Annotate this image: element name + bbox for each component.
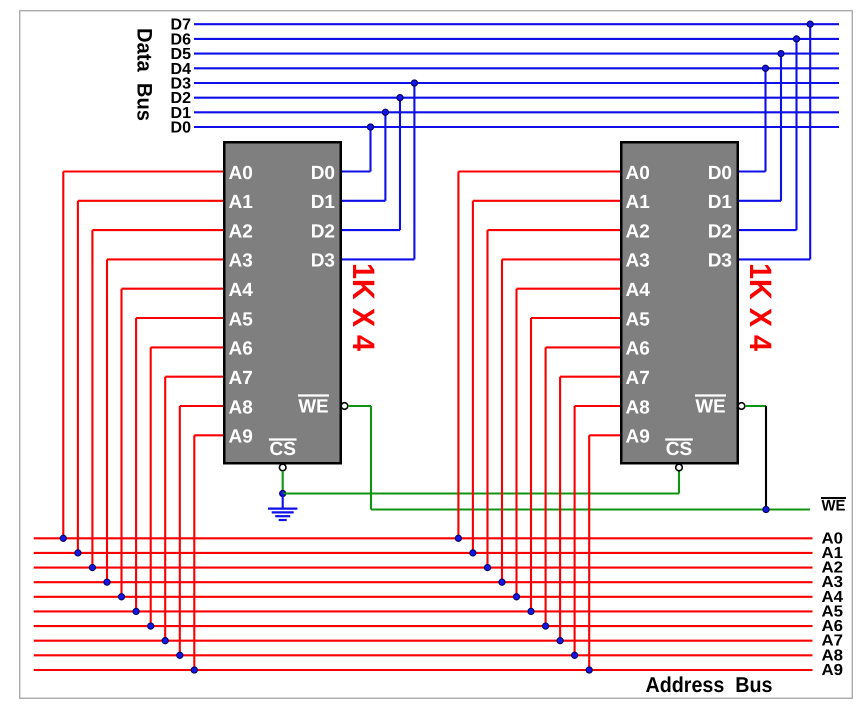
svg-text:A7: A7: [626, 368, 650, 389]
wire U1 A2 riser: [91, 230, 93, 567]
junction U1 A7 on address bus: [162, 638, 168, 644]
wire U1 pin A8 stub: [180, 405, 223, 407]
wire address bus line A3: [34, 581, 813, 583]
wire address bus line A8: [34, 654, 813, 656]
junction U2 A7 on address bus: [557, 638, 563, 644]
wire WE net horizontal: [371, 508, 810, 510]
wire data bus line D4: [194, 67, 839, 69]
svg-text:A3: A3: [626, 251, 650, 272]
junction U2 A2 on address bus: [484, 565, 490, 571]
wire U2 pin A3 stub: [502, 258, 620, 260]
wire U1 pin A9 stub: [194, 434, 223, 436]
svg-text:D1: D1: [311, 192, 336, 213]
overline for U2 WE label: [695, 394, 726, 396]
svg-text:Data Bus: Data Bus: [133, 28, 156, 121]
wire U1 A1 riser: [77, 201, 79, 553]
junction U2 A6 on address bus: [543, 623, 549, 629]
junction WE net: [763, 506, 769, 512]
svg-text:A5: A5: [229, 309, 254, 330]
wire address bus line A0: [34, 537, 813, 539]
wire U2 A6 riser: [545, 347, 547, 626]
wire U2 pin A0 stub: [458, 170, 620, 172]
svg-text:A9: A9: [229, 427, 253, 448]
wire U2 A4 riser: [515, 289, 517, 597]
junction U2 A5 on address bus: [528, 608, 534, 614]
wire U1 pin A4 stub: [122, 288, 224, 290]
wire address bus line A4: [34, 596, 813, 598]
wire address bus line A7: [34, 640, 813, 642]
svg-text:A9: A9: [626, 427, 650, 448]
junction U2 D0 on data bus: [762, 65, 768, 71]
svg-text:A0: A0: [626, 163, 650, 184]
wire WE net vertical from U1: [370, 406, 372, 510]
wire U2 A7 riser: [559, 377, 561, 641]
wire data bus line D7: [194, 23, 839, 25]
junction U1 A4 on address bus: [118, 594, 124, 600]
wire U2 A0 riser: [457, 172, 459, 539]
junction U1 A3 on address bus: [104, 579, 110, 585]
svg-text:D0: D0: [311, 163, 335, 184]
junction U1 D2 on data bus: [397, 95, 403, 101]
junction U1 A5 on address bus: [133, 608, 139, 614]
junction U2 D2 on data bus: [793, 36, 799, 42]
wire U2 A1 riser: [472, 201, 474, 553]
junction U1 A0 on address bus: [60, 535, 66, 541]
wire address bus line A6: [34, 625, 813, 627]
memory chip U1 1K x 4: [224, 142, 341, 463]
wire U1 A9 riser: [193, 435, 195, 670]
wire U1 pin D0 stub: [342, 170, 371, 172]
svg-text:A2: A2: [229, 221, 253, 242]
svg-text:WE: WE: [696, 397, 726, 418]
svg-text:1K X 4: 1K X 4: [346, 263, 381, 352]
wire U2 CS stub up: [678, 471, 680, 494]
wire U1 A4 riser: [120, 289, 122, 597]
wire U1 pin A7 stub: [165, 376, 223, 378]
junction U2 A8 on address bus: [572, 652, 578, 658]
junction U2 A0 on address bus: [455, 535, 461, 541]
pin bubble U1 WE: [341, 403, 348, 410]
wire U1 D2 vertical to data bus: [399, 98, 401, 230]
junction U1 D0 on data bus: [367, 124, 373, 130]
wire U2 A5 riser: [530, 318, 532, 611]
overline for U1 CS label: [269, 438, 297, 440]
memory chip U2 1K x 4: [621, 142, 738, 463]
wire U1 D1 vertical to data bus: [384, 112, 386, 201]
wire U1 A5 riser: [135, 318, 137, 611]
wire address bus line A5: [34, 610, 813, 612]
svg-text:A4: A4: [229, 280, 254, 301]
wire U2 A9 riser: [588, 435, 590, 670]
wire U2 D3 vertical to data bus: [809, 24, 811, 259]
wire data bus line D2: [194, 97, 839, 99]
svg-text:D3: D3: [708, 251, 732, 272]
junction U1 D1 on data bus: [382, 109, 388, 115]
wire U1 D3 vertical to data bus: [413, 83, 415, 259]
wire address bus line A2: [34, 567, 813, 569]
wire U2 A2 riser: [486, 230, 488, 567]
wire data bus line D6: [194, 38, 839, 40]
junction U1 D3 on data bus: [411, 80, 417, 86]
svg-text:CS: CS: [666, 439, 692, 460]
junction U1 A8 on address bus: [177, 652, 183, 658]
wire U1 pin A2 stub: [92, 229, 223, 231]
svg-text:A3: A3: [229, 251, 253, 272]
wire U2 A8 riser: [574, 406, 576, 655]
wire U2 D1 vertical to data bus: [780, 54, 782, 201]
svg-text:D2: D2: [311, 221, 335, 242]
wire U2 pin D0 stub: [739, 170, 766, 172]
wire U1 pin D3 stub: [342, 258, 414, 260]
wire U1 pin A3 stub: [107, 258, 223, 260]
overline for U2 CS label: [665, 438, 693, 440]
wire U2 pin A1 stub: [473, 200, 620, 202]
wire U1 pin A6 stub: [151, 346, 223, 348]
overline for U1 WE label: [298, 394, 329, 396]
junction U2 A1 on address bus: [470, 550, 476, 556]
svg-text:A8: A8: [229, 397, 253, 418]
junction U2 A4 on address bus: [513, 594, 519, 600]
junction U1 A1 on address bus: [75, 550, 81, 556]
wire U2 pin A9 stub: [589, 434, 620, 436]
svg-text:A4: A4: [626, 280, 651, 301]
svg-text:A8: A8: [626, 397, 650, 418]
wire address bus line A1: [34, 552, 813, 554]
svg-text:A6: A6: [229, 339, 253, 360]
junction U1 A6 on address bus: [148, 623, 154, 629]
wire U2 D2 vertical to data bus: [795, 39, 797, 230]
svg-text:WE: WE: [299, 397, 329, 418]
junction U2 D1 on data bus: [778, 51, 784, 57]
wire data bus line D5: [194, 53, 839, 55]
wire U1 A7 riser: [164, 377, 166, 641]
svg-text:A1: A1: [229, 192, 254, 213]
wire U2 pin A8 stub: [575, 405, 620, 407]
wire U2 pin A6 stub: [546, 346, 620, 348]
wire data bus line D3: [194, 82, 839, 84]
svg-text:CS: CS: [269, 439, 295, 460]
svg-text:A7: A7: [229, 368, 253, 389]
wire data bus line D1: [194, 111, 839, 113]
svg-text:D1: D1: [708, 192, 733, 213]
wire U2 pin D3 stub: [739, 258, 810, 260]
wire U1 pin A0 stub: [63, 170, 223, 172]
wire U1 CS stub down: [282, 471, 284, 494]
svg-text:D3: D3: [311, 251, 335, 272]
wire U1 pin A1 stub: [78, 200, 223, 202]
svg-text:WE: WE: [822, 498, 846, 515]
svg-text:A1: A1: [626, 192, 651, 213]
ground symbol: [268, 494, 297, 521]
wire CS net horizontal to U2: [283, 492, 679, 494]
junction U2 D3 on data bus: [807, 21, 813, 27]
wire U2 D0 vertical to data bus: [764, 68, 766, 171]
wire U2 pin A4 stub: [517, 288, 621, 290]
wire U2 pin A5 stub: [531, 317, 620, 319]
wire U2 A3 riser: [501, 259, 503, 582]
wire U1 pin A5 stub: [136, 317, 223, 319]
wire U2 pin D1 stub: [739, 200, 781, 202]
svg-text:1K X 4: 1K X 4: [743, 263, 778, 352]
overline for WE net label: [821, 497, 846, 499]
wire U1 A3 riser: [106, 259, 108, 582]
svg-text:A9: A9: [822, 662, 844, 679]
wire U2 WE vertical drop (black): [765, 406, 767, 510]
svg-text:D0: D0: [708, 163, 732, 184]
pin bubble U2 WE: [738, 403, 745, 410]
pin bubble U1 CS: [279, 464, 286, 471]
wire data bus line D0: [194, 126, 839, 128]
wire U2 pin A7 stub: [560, 376, 620, 378]
wire U1 A8 riser: [179, 406, 181, 655]
wire U1 D0 vertical to data bus: [369, 127, 371, 172]
wire U1 A0 riser: [62, 172, 64, 539]
wire address bus line A9: [34, 669, 813, 671]
wire U1 WE stub: [348, 405, 371, 407]
wire U1 pin D2 stub: [342, 229, 400, 231]
pin bubble U2 CS: [676, 464, 683, 471]
svg-text:D0: D0: [171, 120, 192, 137]
wire U1 pin D1 stub: [342, 200, 385, 202]
wire U1 A6 riser: [150, 347, 152, 626]
wire U2 WE stub: [745, 405, 766, 407]
svg-text:A5: A5: [626, 309, 651, 330]
svg-text:A6: A6: [626, 339, 650, 360]
junction U2 A3 on address bus: [499, 579, 505, 585]
junction CS net at ground: [280, 490, 286, 496]
wire U2 pin D2 stub: [739, 229, 797, 231]
junction U1 A9 on address bus: [191, 667, 197, 673]
svg-text:A2: A2: [626, 221, 650, 242]
junction U1 A2 on address bus: [89, 565, 95, 571]
wire U2 pin A2 stub: [488, 229, 621, 231]
svg-text:A0: A0: [229, 163, 253, 184]
svg-text:D2: D2: [708, 221, 732, 242]
svg-text:Address Bus: Address Bus: [646, 673, 773, 697]
junction U2 A9 on address bus: [586, 667, 592, 673]
